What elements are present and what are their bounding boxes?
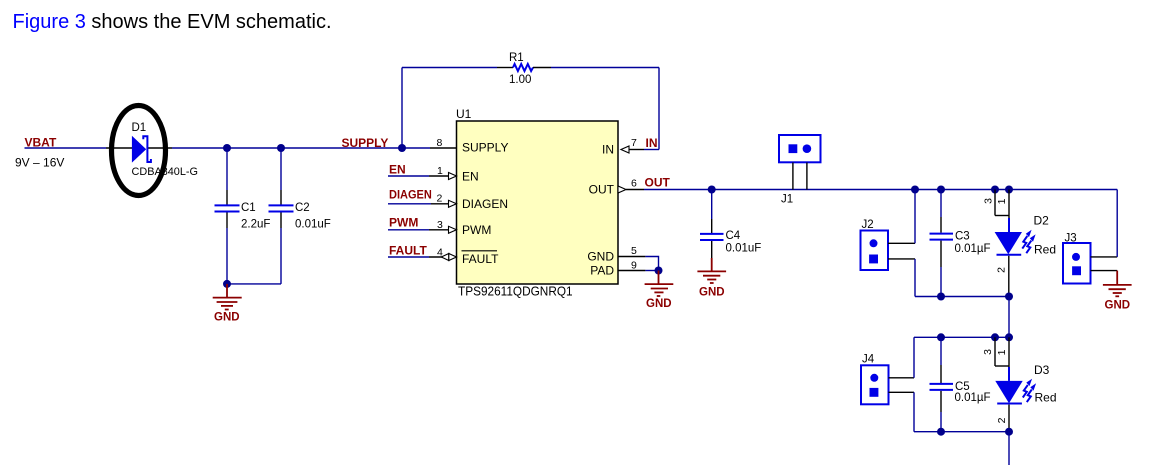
svg-text:PWM: PWM: [462, 223, 491, 237]
pin 4 FAULT bidirectional: [429, 247, 457, 261]
svg-text:FAULT: FAULT: [389, 244, 427, 258]
node junction bus/C3: [937, 186, 945, 194]
svg-text:0.01uF: 0.01uF: [295, 219, 331, 231]
svg-text:3: 3: [982, 349, 994, 355]
svg-text:0.01uF: 0.01uF: [726, 243, 762, 255]
wire C2 bottom to C1 bottom: [227, 283, 281, 285]
svg-text:GND: GND: [587, 250, 614, 264]
wire stage2 rail to J4 pin1: [913, 337, 915, 378]
node junction GND/PAD: [655, 267, 663, 275]
svg-text:EN: EN: [462, 170, 479, 184]
capacitor C4 0.01uF: [700, 190, 761, 259]
node junction OUT/C4: [708, 186, 716, 194]
svg-text:C3: C3: [955, 231, 970, 243]
wire EN net stub: [388, 175, 429, 177]
wire J2 pin2 to bottom rail: [914, 259, 916, 297]
svg-text:2: 2: [996, 267, 1008, 273]
wire R1 loop left vertical: [401, 68, 403, 149]
ground GND below U1 pad: [645, 271, 674, 311]
svg-text:TPS92611QDGNRQ1: TPS92611QDGNRQ1: [458, 285, 573, 299]
wire stage1 bottom rail: [915, 296, 1009, 298]
svg-text:Red: Red: [1035, 391, 1057, 405]
connector J2: [861, 219, 916, 270]
svg-text:D3: D3: [1034, 363, 1050, 377]
wire FAULT net stub: [388, 256, 429, 258]
pin 7 IN: [621, 137, 644, 153]
svg-text:U1: U1: [456, 107, 472, 121]
pin 2 DIAGEN: [431, 193, 457, 208]
node junction D3 pin3: [991, 333, 999, 341]
wire IN to R1 loop: [644, 149, 659, 151]
pin 1 EN: [429, 165, 457, 180]
capacitor C2 0.01uF: [269, 148, 331, 284]
IC U1 TPS92611QDGNRQ1 body: [456, 107, 618, 299]
svg-text:GND: GND: [699, 287, 725, 299]
svg-text:EN: EN: [389, 163, 406, 177]
node junction C5 top: [937, 333, 945, 341]
svg-text:9V – 16V: 9V – 16V: [15, 156, 64, 170]
capacitor C5 0.01uF: [930, 337, 991, 431]
svg-text:Red: Red: [1034, 243, 1056, 257]
svg-text:PWM: PWM: [389, 216, 418, 230]
connector J4: [861, 354, 914, 405]
wire J4 pin2 to bottom rail: [913, 392, 915, 431]
svg-text:SUPPLY: SUPPLY: [342, 136, 389, 150]
svg-text:9: 9: [631, 260, 637, 272]
svg-text:GND: GND: [1105, 300, 1131, 312]
wire R1 loop top left: [402, 67, 497, 69]
capacitor C1 2.2uF: [215, 148, 271, 284]
svg-text:C1: C1: [241, 202, 256, 214]
wire R1 loop right vertical to IN: [658, 68, 660, 150]
node junction C3 bottom: [937, 293, 945, 301]
svg-text:0.01µF: 0.01µF: [955, 243, 991, 255]
node junction bus/D2 pin3: [991, 186, 999, 194]
wire PWM net stub: [388, 229, 429, 231]
svg-text:IN: IN: [646, 136, 658, 150]
node junction at C1/C2 ground: [223, 280, 231, 288]
svg-text:2: 2: [437, 193, 443, 205]
node junction D3 cathode: [1005, 428, 1013, 436]
wire D3 cathode tail: [1008, 432, 1010, 465]
ground GND below C1/C2: [213, 284, 242, 324]
LED D3 Red: [982, 337, 1057, 431]
svg-text:6: 6: [631, 178, 637, 190]
svg-text:C4: C4: [726, 230, 741, 242]
wire PAD stub: [645, 270, 658, 272]
svg-text:2.2uF: 2.2uF: [241, 219, 270, 231]
svg-text:4: 4: [437, 247, 443, 259]
svg-text:5: 5: [631, 245, 637, 257]
svg-text:1: 1: [996, 349, 1008, 355]
svg-text:2: 2: [996, 417, 1008, 423]
wire bus to J2 pin1: [914, 190, 916, 244]
svg-text:C2: C2: [295, 202, 310, 214]
diode D1 (Schottky CDBA340L-G): [106, 122, 198, 178]
svg-text:J3: J3: [1065, 233, 1077, 245]
svg-text:3: 3: [982, 198, 994, 204]
svg-text:8: 8: [437, 137, 443, 149]
node junction C5 bottom: [937, 428, 945, 436]
connector J1: [779, 135, 821, 206]
svg-text:OUT: OUT: [589, 183, 615, 197]
svg-text:PAD: PAD: [590, 264, 614, 278]
svg-text:IN: IN: [602, 143, 614, 157]
wire VBAT to D1 anode: [25, 147, 107, 149]
svg-text:GND: GND: [214, 312, 240, 324]
capacitor C3 0.01uF: [930, 190, 991, 297]
svg-text:J1: J1: [781, 194, 793, 206]
node junction bus/J2 branch: [911, 186, 919, 194]
ground GND below C4: [697, 258, 726, 299]
svg-text:R1: R1: [509, 52, 524, 64]
svg-text:SUPPLY: SUPPLY: [462, 141, 508, 155]
wire D2 cathode to stage2: [1008, 297, 1010, 338]
ground GND at J3: [1103, 271, 1132, 312]
annotation ellipse around D1: [112, 106, 166, 196]
svg-text:DIAGEN: DIAGEN: [462, 197, 508, 211]
svg-text:3: 3: [437, 219, 443, 231]
svg-text:J4: J4: [862, 354, 875, 366]
svg-text:GND: GND: [646, 298, 672, 310]
svg-text:0.01µF: 0.01µF: [955, 392, 991, 404]
node VBAT label: [15, 135, 64, 169]
resistor R1 1.00: [497, 52, 551, 86]
pin 5 GND: [618, 245, 645, 257]
svg-text:D1: D1: [132, 122, 147, 134]
svg-text:DIAGEN: DIAGEN: [389, 188, 432, 202]
svg-text:Figure 3 shows the EVM schemat: Figure 3 shows the EVM schematic.: [13, 11, 332, 33]
node junction at C1 tap: [223, 144, 231, 152]
svg-text:OUT: OUT: [645, 176, 671, 190]
pin 9 PAD: [618, 260, 645, 272]
wire bus right vertical to J3: [1116, 190, 1118, 257]
svg-text:1: 1: [437, 165, 443, 177]
pin 3 PWM: [429, 219, 457, 233]
wire DIAGEN net stub: [388, 203, 431, 205]
svg-text:1: 1: [996, 198, 1008, 204]
wire OUT bus: [644, 189, 1117, 191]
connector J3: [1063, 233, 1117, 284]
node junction SUPPLY / R1: [398, 144, 406, 152]
node junction at C2 tap: [277, 144, 285, 152]
wire GND pin to PAD junction: [645, 257, 658, 271]
svg-text:7: 7: [631, 137, 637, 149]
wire D1 cathode to SUPPLY net: [172, 147, 430, 149]
svg-text:FAULT: FAULT: [462, 252, 499, 266]
LED D2 Red: [982, 190, 1056, 297]
wire stage2 bottom rail: [914, 431, 1009, 433]
wire stage2 top rail: [914, 336, 1009, 338]
pin 8 SUPPLY: [430, 137, 457, 149]
svg-text:VBAT: VBAT: [25, 135, 57, 149]
svg-text:1.00: 1.00: [509, 74, 531, 86]
svg-text:J2: J2: [862, 219, 874, 231]
svg-text:D2: D2: [1034, 214, 1050, 228]
node junction D3 pin1: [1005, 333, 1013, 341]
node junction D2 cathode: [1005, 293, 1013, 301]
wire R1 loop top right: [551, 67, 659, 69]
node junction bus/D2 pin1: [1005, 186, 1013, 194]
pin 6 OUT: [618, 178, 644, 194]
